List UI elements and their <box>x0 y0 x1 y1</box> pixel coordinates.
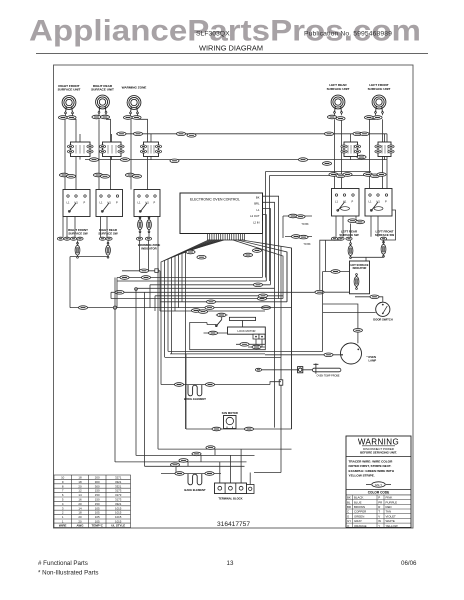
connector on L2 bus <box>170 159 179 163</box>
wire band vertical x158 <box>157 217 159 450</box>
surface unit LR coil <box>331 95 345 113</box>
wire into hot surface box <box>323 271 350 273</box>
wire EOC fanout right 2 <box>237 240 287 302</box>
surface switch RR <box>96 190 123 217</box>
connector row y238 right <box>331 237 337 240</box>
wire right bundle x287 <box>286 252 288 302</box>
svg-text:INDICATOR: INDICATOR <box>353 267 367 270</box>
wire indicator returns <box>70 257 108 308</box>
svg-text:* Non-Illustrated Parts: * Non-Illustrated Parts <box>38 569 99 576</box>
connector lock bottom 2 <box>252 345 261 349</box>
wire limiter stubs <box>80 134 385 160</box>
connector on right fanout <box>252 249 261 253</box>
svg-text:P: P <box>352 200 354 204</box>
connector row above switches right <box>377 173 386 177</box>
header rule <box>36 53 428 55</box>
svg-text:P: P <box>154 201 156 205</box>
fusible link on x281 <box>279 380 283 385</box>
svg-text:3173: 3173 <box>115 498 122 502</box>
connector on h307 <box>261 306 270 310</box>
svg-text:NOTED FIRST, STRIPE NEXT.: NOTED FIRST, STRIPE NEXT. <box>349 464 392 468</box>
svg-text:T: T <box>378 510 380 514</box>
svg-text:300: 300 <box>95 484 100 488</box>
wire right trunk x322 <box>322 272 324 352</box>
svg-text:PURPLE: PURPLE <box>386 500 398 504</box>
connector on right fanout <box>243 253 252 257</box>
svg-text:BEFORE SERVICING UNIT.: BEFORE SERVICING UNIT. <box>360 450 397 454</box>
label warming zone indicator <box>138 243 161 250</box>
connector bake left <box>175 472 184 476</box>
connector on L2 bus <box>298 158 307 162</box>
wire EOC fanout left 8 <box>186 240 225 429</box>
svg-text:06/06: 06/06 <box>401 560 417 567</box>
connector hot surface feed <box>331 270 340 274</box>
warning box <box>346 436 411 528</box>
svg-text:EXAMPLE: GREEN WIRE WITH: EXAMPLE: GREEN WIRE WITH <box>349 469 395 473</box>
connector on h270 <box>139 269 148 273</box>
wire band vertical x150 <box>149 285 151 308</box>
connector LF unit plug <box>364 116 373 120</box>
svg-text:BLACK: BLACK <box>354 496 364 500</box>
connector on L1 bus <box>353 132 362 136</box>
wire lock lever top <box>216 315 228 320</box>
wire cascade steps <box>176 449 215 472</box>
connector on L2 bus <box>89 158 98 162</box>
connector RR unit plug <box>92 115 101 119</box>
limiter WZ <box>140 142 161 157</box>
limiter LF <box>375 142 394 157</box>
connector under LR switch <box>348 219 357 223</box>
svg-text:DOOR SWITCH: DOOR SWITCH <box>373 318 392 322</box>
svg-text:14: 14 <box>78 506 82 510</box>
door switch S1 <box>376 302 390 316</box>
svg-text:RED: RED <box>386 505 392 509</box>
connector on L1 bus <box>133 132 142 136</box>
svg-text:Publication No. 5995468989: Publication No. 5995468989 <box>304 31 392 38</box>
connector door switch <box>370 295 379 299</box>
wire band h307 <box>117 307 292 309</box>
connector on h466 <box>170 463 179 467</box>
wire oven lamp left <box>265 354 341 356</box>
connector lamp feed <box>353 329 362 333</box>
wire EOC fanout left 7 <box>182 240 222 302</box>
connector hot surface lower <box>315 290 324 294</box>
wire lamp commons <box>351 256 384 261</box>
connector on h298 <box>257 297 266 301</box>
connector under warming zone <box>136 237 142 240</box>
wire band h288 <box>136 287 275 289</box>
svg-text:BAKE ELEMENT: BAKE ELEMENT <box>184 488 206 492</box>
surface unit RF label <box>58 84 81 92</box>
lock switch lever <box>216 320 222 327</box>
svg-text:GREEN: GREEN <box>354 514 364 518</box>
connector on L1 bus <box>117 132 126 136</box>
svg-text:P: P <box>116 201 118 205</box>
warming zone element coil <box>127 96 141 114</box>
electronic oven control U1 <box>180 193 263 234</box>
connector on L2 bus <box>322 162 331 166</box>
connector on h455 <box>192 452 201 456</box>
svg-text:OVEN TEMP PROBE: OVEN TEMP PROBE <box>316 374 339 377</box>
wire EOC fanout left 3 <box>168 240 213 351</box>
wire door switch h296 <box>355 297 383 302</box>
connector on h295 <box>258 294 267 298</box>
connector on h307 <box>205 306 214 310</box>
wire band h284 <box>150 284 270 286</box>
bake element feed wire <box>161 473 221 475</box>
label LR surface switch <box>339 230 359 237</box>
svg-text:P: P <box>378 496 380 500</box>
wire temp probe feed <box>256 369 312 371</box>
svg-text:P: P <box>385 200 387 204</box>
lock switch pivot <box>215 325 217 327</box>
wire EOC fanout left 5 <box>175 240 217 311</box>
svg-text:SURFACE UNIT: SURFACE UNIT <box>327 87 350 91</box>
connector row above switches <box>59 173 68 177</box>
door lock assembly enclosure <box>190 323 266 350</box>
wire EOC fanout left 1 <box>161 240 209 385</box>
svg-text:316417757: 316417757 <box>217 521 250 528</box>
lock cam stem <box>242 321 244 328</box>
svg-text:20: 20 <box>78 502 82 506</box>
svg-text:300: 300 <box>95 480 100 484</box>
connector on fanout <box>197 255 206 259</box>
wire RF coil leads <box>65 113 76 189</box>
svg-text:150: 150 <box>95 489 100 493</box>
hot surface indicator box <box>350 261 370 294</box>
wire warming zone leads <box>131 113 148 189</box>
broil element feed wire <box>161 382 281 385</box>
svg-text:PINK: PINK <box>386 496 393 500</box>
svg-text:3321: 3321 <box>115 484 122 488</box>
svg-text:WIRE: WIRE <box>59 524 67 528</box>
connector row above switches right <box>343 173 352 177</box>
wire band h295 <box>155 295 283 297</box>
EOC bottom pin comb <box>208 234 245 241</box>
svg-text:* OVEN: * OVEN <box>367 355 376 359</box>
svg-text:18: 18 <box>78 480 82 484</box>
wire RR coil leads <box>99 113 111 190</box>
svg-text:LOCK MOTOR: LOCK MOTOR <box>237 329 255 333</box>
svg-text:12: 12 <box>78 489 82 493</box>
wire band h292 <box>111 291 314 293</box>
connector on fanout <box>186 250 195 254</box>
wire bus L1 top <box>116 134 387 189</box>
svg-text:W: W <box>378 519 381 523</box>
lock motor terminals <box>253 334 265 339</box>
wire long h353.9 <box>170 353 265 355</box>
bake element <box>188 474 202 485</box>
wire terminal block drops <box>220 449 281 484</box>
connector temp probe plug <box>298 367 303 373</box>
oven lamp DS1 <box>341 343 362 364</box>
svg-text:150: 150 <box>95 493 100 497</box>
svg-text:ORANGE: ORANGE <box>354 524 367 528</box>
svg-text:BRL: BRL <box>254 202 260 206</box>
svg-text:SURFACE SW: SURFACE SW <box>339 233 359 237</box>
wire EOC fanout right 1 <box>233 240 283 299</box>
indicator light RR <box>106 240 111 258</box>
svg-text:LAMP: LAMP <box>369 358 377 362</box>
connector on L2 bus <box>120 158 129 162</box>
svg-text:ELECTRONIC OVEN CONTROL: ELECTRONIC OVEN CONTROL <box>190 198 240 202</box>
label RF surface switch <box>68 228 88 235</box>
svg-text:GN-Y: GN-Y <box>375 483 383 487</box>
connector fan left <box>212 427 221 431</box>
wire tap 2 <box>283 216 312 238</box>
wire EOC fanout right 3 <box>242 240 292 429</box>
svg-text:BR: BR <box>347 505 351 509</box>
wire LF switch right drop <box>371 210 396 243</box>
wire door circuit h304 <box>323 304 358 343</box>
wire bottom h466 <box>145 465 245 467</box>
svg-text:WARMING ZONE: WARMING ZONE <box>122 86 147 90</box>
svg-text:# Functional Parts: # Functional Parts <box>38 560 88 567</box>
surface unit RF coil <box>62 96 76 114</box>
connector warming zone plug <box>123 116 132 120</box>
svg-text:20: 20 <box>78 484 82 488</box>
svg-text:BROIL ELEMENT: BROIL ELEMENT <box>184 397 206 401</box>
indicator light RF <box>75 240 80 258</box>
connector on h277 <box>141 276 150 280</box>
svg-text:R: R <box>378 505 380 509</box>
limiter RF <box>67 142 93 157</box>
wire bus L2 <box>85 159 387 161</box>
wire bottom h462 <box>115 461 247 463</box>
svg-text:18: 18 <box>78 511 82 515</box>
hot surface indicator light LR <box>348 243 353 259</box>
svg-text:14: 14 <box>78 493 82 497</box>
svg-text:TERMINAL BLOCK: TERMINAL BLOCK <box>218 496 242 500</box>
surface unit LR label <box>327 83 350 91</box>
connector row above switches right <box>363 173 372 177</box>
svg-text:Y: Y <box>378 524 380 528</box>
wire right bundle x291 trunk <box>291 248 293 429</box>
svg-text:WHITE: WHITE <box>386 519 395 523</box>
connector RF unit plug <box>58 116 67 120</box>
connector on return <box>78 306 87 310</box>
svg-text:V: V <box>378 514 380 518</box>
connector fan right <box>244 427 253 431</box>
svg-text:TEMP°C: TEMP°C <box>92 524 104 528</box>
wire tap with connectors TO BK <box>283 215 312 217</box>
wire gauge table <box>54 475 131 528</box>
connector oven lamp left <box>324 353 333 357</box>
svg-text:105: 105 <box>95 506 100 510</box>
surface unit RR label <box>91 84 114 92</box>
svg-text:3271: 3271 <box>115 476 122 480</box>
svg-text:GRAY: GRAY <box>354 519 362 523</box>
connector on h292 <box>115 291 124 295</box>
surface switch LR <box>332 189 360 217</box>
wire lock switch feed <box>207 323 216 325</box>
svg-text:C: C <box>347 510 349 514</box>
svg-text:BK: BK <box>347 496 351 500</box>
wire EOC fanout left 4 <box>172 240 216 354</box>
svg-text:YELLOW: YELLOW <box>386 524 398 528</box>
svg-text:18: 18 <box>78 476 82 480</box>
wire band vertical x155 <box>154 296 156 311</box>
wire EOC fanout left 2 <box>165 240 211 357</box>
wire hot surface lower <box>314 291 350 293</box>
connector row above switches <box>125 173 134 177</box>
svg-text:150: 150 <box>95 502 100 506</box>
connector on h449 <box>206 446 215 450</box>
connector bake right <box>205 472 214 476</box>
wire long h351 <box>168 350 323 352</box>
wire LR switch drops <box>336 216 356 243</box>
svg-text:AWG: AWG <box>77 524 85 528</box>
svg-text:SURFACE UNIT: SURFACE UNIT <box>91 88 114 92</box>
svg-text:INDICATOR: INDICATOR <box>141 247 156 251</box>
svg-text:SURFACE UNIT: SURFACE UNIT <box>58 88 81 92</box>
surface unit LF coil <box>372 95 386 113</box>
wire EOC pin L2 OUT <box>263 215 267 281</box>
diagram border frame <box>54 65 414 528</box>
svg-text:1015: 1015 <box>115 511 122 515</box>
terminal block TB1 <box>215 483 255 494</box>
svg-text:FAN MOTOR: FAN MOTOR <box>222 411 238 415</box>
wire lock bottom 2 <box>248 339 265 347</box>
warming zone element label <box>122 86 147 90</box>
wire indicator return to node <box>70 307 115 309</box>
wire band h277 <box>117 277 262 279</box>
surface unit LF label <box>368 83 391 91</box>
svg-text:3321: 3321 <box>115 502 122 506</box>
wire door switch h312 <box>323 312 376 314</box>
wire band h281 <box>117 280 266 282</box>
connector strip under RR switch <box>99 237 105 240</box>
connector row above switches right <box>329 173 338 177</box>
svg-text:16: 16 <box>78 498 82 502</box>
wire band h298 <box>111 298 283 300</box>
node junction J3 <box>113 306 116 309</box>
svg-text:13: 13 <box>227 560 234 567</box>
wire lock motor left <box>204 332 228 334</box>
wire bottom h455 <box>136 454 255 456</box>
connector lock motor left <box>208 331 217 335</box>
connector on h277 <box>120 276 129 280</box>
node junction J2 <box>135 288 138 291</box>
wire h343 <box>236 334 265 344</box>
svg-text:VIOLET: VIOLET <box>386 514 397 518</box>
svg-text:BROWN: BROWN <box>354 505 365 509</box>
hot surface indicator light LF <box>381 241 386 257</box>
wire LF coil leads <box>370 113 383 189</box>
svg-text:SLF303QX: SLF303QX <box>196 31 230 38</box>
connector on L1 bus <box>187 134 196 138</box>
svg-text:WARNING: WARNING <box>358 438 399 447</box>
wire EOC pin L1 <box>263 209 271 285</box>
svg-text:BLUE: BLUE <box>354 500 362 504</box>
svg-text:L2 IN: L2 IN <box>253 220 259 224</box>
wire warming zone drops <box>140 240 149 271</box>
connector on h462 <box>179 459 188 463</box>
node square J1 <box>155 269 159 273</box>
wire band vertical x136 <box>135 288 137 455</box>
svg-text:3173: 3173 <box>115 489 122 493</box>
svg-text:UL STYLE: UL STYLE <box>111 524 125 528</box>
svg-text:YELLOW STRIPE.: YELLOW STRIPE. <box>349 474 375 478</box>
svg-text:TAN: TAN <box>386 510 392 514</box>
svg-text:105: 105 <box>95 511 100 515</box>
wire upper feed h171 <box>266 172 372 278</box>
wire LR coil leads <box>335 113 342 189</box>
label RR surface switch <box>98 228 118 235</box>
connector strip under RF switch <box>57 237 63 240</box>
svg-text:SURFACE UNIT: SURFACE UNIT <box>368 87 391 91</box>
limiter RR <box>99 142 124 157</box>
svg-text:3173: 3173 <box>115 493 122 497</box>
surface switch LF <box>365 189 392 217</box>
wire stubs below RF switch <box>57 217 107 238</box>
connector on h311 <box>198 310 207 314</box>
wire long h357.4 <box>165 356 281 358</box>
svg-text:3321: 3321 <box>115 480 122 484</box>
wire band vertical x117 <box>116 278 118 308</box>
lock motor M1 <box>228 327 266 334</box>
svg-text:10: 10 <box>61 476 65 480</box>
warming zone switch <box>134 190 160 217</box>
limiter LR <box>341 142 361 157</box>
connector LR unit plug <box>327 115 336 119</box>
wire EOC fanout left 6 <box>179 240 220 308</box>
wire band vertical x160 <box>159 271 161 311</box>
connector lock lever <box>217 313 226 317</box>
wire EOC pin L2 IN <box>262 221 264 278</box>
svg-text:GY: GY <box>347 519 351 523</box>
svg-text:BL: BL <box>347 500 351 504</box>
svg-text:1015: 1015 <box>115 506 122 510</box>
oven temp probe RT1 <box>312 363 341 373</box>
connector on L1 bus <box>324 132 333 136</box>
wire fan motor run <box>186 354 292 429</box>
wire LR switch to hot surface feed <box>320 240 341 292</box>
svg-text:TRACER WIRE: WIRE COLOR: TRACER WIRE: WIRE COLOR <box>349 460 394 464</box>
wire band vertical x115 <box>114 278 116 463</box>
connector broil right <box>205 383 214 387</box>
connector broil left <box>174 383 183 387</box>
svg-text:L2 OUT: L2 OUT <box>250 214 260 218</box>
warming zone indicator lights <box>138 217 152 237</box>
wire band h301 <box>160 301 287 303</box>
surface unit RR coil <box>96 95 110 113</box>
svg-text:P: P <box>84 201 86 205</box>
connector on L2 bus <box>357 155 366 159</box>
wire band vertical x144 <box>144 292 146 466</box>
connector lock bottom 1 <box>240 343 249 347</box>
wire right bundle x281 trunk <box>280 246 282 473</box>
connector on L1 bus <box>176 132 185 136</box>
svg-text:200: 200 <box>95 476 100 480</box>
wire EOC pin BK <box>263 196 279 298</box>
connector temp probe lead <box>255 368 261 371</box>
svg-text:TO BK: TO BK <box>303 243 311 246</box>
connector on h284 <box>253 283 262 287</box>
svg-text:SURFACE SW: SURFACE SW <box>68 231 88 235</box>
svg-text:WIRING DIAGRAM: WIRING DIAGRAM <box>199 44 263 53</box>
label LF surface switch <box>375 230 395 237</box>
svg-text:L1: L1 <box>257 208 260 212</box>
label oven lamp <box>367 355 377 362</box>
connector on h301 <box>206 300 215 304</box>
broil element <box>188 385 202 396</box>
wire EOC pin BRL <box>263 202 275 427</box>
wire upper feed h175 <box>270 176 379 282</box>
wire band h311 <box>160 310 265 312</box>
connector on h311 <box>191 309 200 313</box>
svg-text:COLOR CODE: COLOR CODE <box>368 491 390 495</box>
